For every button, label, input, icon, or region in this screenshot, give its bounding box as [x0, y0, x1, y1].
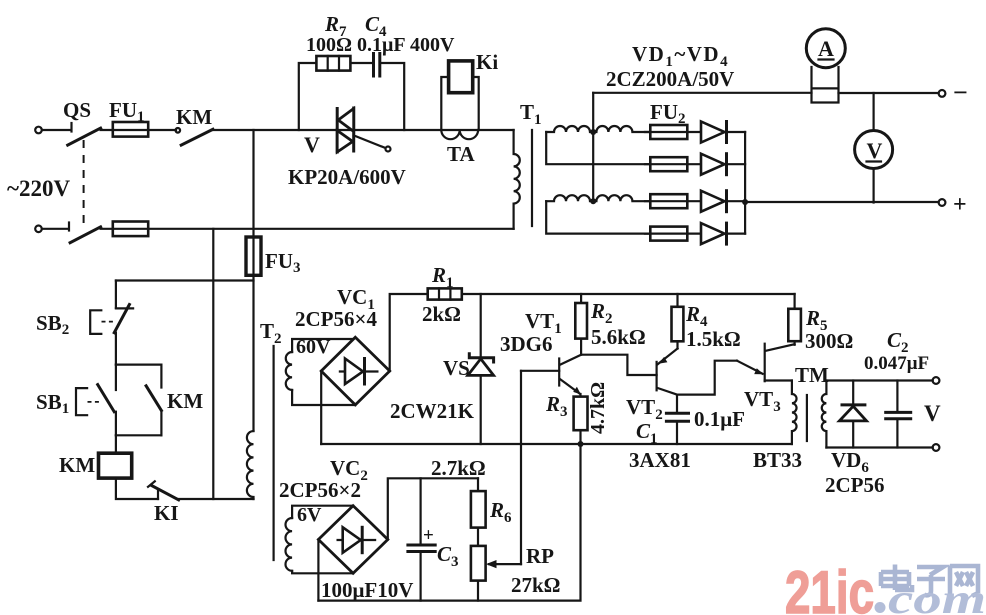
voltmeter V: [872, 93, 874, 203]
svg-text:+: +: [423, 525, 434, 546]
svg-text:100Ω: 100Ω: [306, 34, 352, 56]
transformer T1 core: [531, 130, 533, 226]
svg-text:2CP56×2: 2CP56×2: [279, 478, 361, 502]
wire VT2 collector to VT3 emitter: [677, 361, 737, 395]
svg-text:V: V: [304, 132, 320, 157]
resistor R2: [580, 294, 582, 355]
svg-text:3DG6: 3DG6: [500, 332, 553, 356]
svg-text:TA: TA: [447, 142, 475, 166]
wire: [42, 228, 68, 230]
svg-text:2kΩ: 2kΩ: [422, 302, 461, 326]
diode VD3: [701, 191, 725, 212]
wire center tap: [592, 93, 594, 201]
svg-text:3AX81: 3AX81: [629, 448, 691, 472]
pushbutton SB2: [115, 281, 117, 309]
diode VD4: [701, 223, 725, 244]
pulse transformer TM primary: [792, 381, 797, 445]
wire positive output line: [745, 201, 939, 203]
node plus junction: [742, 199, 748, 205]
svg-text:+: +: [953, 192, 967, 218]
wire negative output line: [593, 92, 938, 94]
svg-text:0.1μF: 0.1μF: [694, 407, 745, 431]
svg-text:KI: KI: [154, 501, 179, 525]
svg-text:~220V: ~220V: [7, 176, 70, 201]
svg-text:2CW21K: 2CW21K: [390, 399, 475, 423]
svg-text:KM: KM: [59, 453, 95, 477]
wire snubber right: [380, 63, 404, 130]
svg-text:1.5kΩ: 1.5kΩ: [686, 327, 741, 351]
rectifier bridge VC1: [321, 337, 390, 405]
SECTION: trigger circuit: [295, 263, 941, 497]
transistor VT2: [655, 362, 657, 390]
wiper arrow RP: [489, 563, 521, 565]
wire bottom AC line: [101, 228, 514, 230]
SECTION: control circuit: [36, 130, 301, 525]
capacitor C1: [676, 395, 678, 411]
SECTION: thyristor: [288, 108, 406, 189]
node output terminal top: [933, 377, 940, 384]
TM core: [806, 395, 808, 441]
pushbutton SB1: [115, 365, 117, 390]
svg-text:QS: QS: [63, 98, 91, 122]
svg-text:RP: RP: [526, 544, 554, 568]
fuse FU2 row1: [650, 125, 687, 139]
contact KM auxiliary: [146, 386, 161, 411]
ammeter A: [806, 29, 845, 68]
transformer T2 primary: [247, 431, 254, 499]
wire bridge2 minus down: [317, 540, 319, 601]
capacitor C4: [374, 54, 380, 77]
svg-text:2.7kΩ: 2.7kΩ: [431, 456, 486, 480]
wire bridge minus down: [320, 371, 322, 444]
wire: [101, 129, 176, 131]
wire: [42, 129, 71, 131]
potentiometer RP: [471, 546, 486, 581]
svg-text:VD1~VD4: VD1~VD4: [632, 42, 729, 70]
svg-text:60V: 60V: [296, 336, 331, 358]
dashed link QS: [83, 140, 85, 226]
fuse FU3: [252, 130, 254, 431]
wire top AC line: [213, 129, 514, 131]
svg-text:KP20A/600V: KP20A/600V: [288, 165, 406, 189]
wire row1 to diode: [645, 131, 701, 133]
SECTION: low voltage supply: [279, 371, 581, 602]
svg-text:6V: 6V: [297, 504, 322, 526]
contactor coil KM: [99, 453, 132, 478]
contactor contact KM main: [176, 128, 181, 133]
svg-text:KM: KM: [167, 389, 203, 413]
wire output bottom: [826, 446, 932, 448]
T1 secondary winding A bottom lead: [546, 132, 650, 164]
resistor R7: [316, 56, 350, 71]
switch QS pole 2: [68, 223, 70, 231]
resistor R4: [676, 294, 678, 349]
svg-text:KM: KM: [176, 105, 212, 129]
gate wire: [354, 135, 386, 148]
wire rejoin: [116, 434, 161, 436]
capacitor C3 electrolytic: [420, 478, 422, 544]
node N input terminal: [35, 226, 42, 233]
svg-text:2CP56×4: 2CP56×4: [295, 307, 377, 331]
node output terminal bottom: [933, 444, 940, 451]
relay coil KI: [449, 61, 473, 93]
fuse FU2 row4: [650, 227, 687, 241]
wire bridge plus up to R1: [390, 294, 428, 371]
svg-text:TM: TM: [795, 363, 829, 387]
svg-text:300Ω: 300Ω: [805, 329, 853, 353]
wire wiper to VT1 base: [520, 371, 522, 564]
watermark dot: [875, 602, 886, 613]
diode VD2: [701, 154, 725, 175]
node R3 ground: [578, 441, 584, 447]
TM secondary: [822, 381, 827, 448]
T1 secondary winding B top half: [546, 195, 650, 201]
SECTION: watermark: [785, 559, 986, 615]
svg-text:0.1μF: 0.1μF: [357, 34, 406, 56]
wire VT3 base1: [765, 379, 792, 381]
diode VD6: [852, 381, 854, 405]
transformer T2 core: [273, 346, 275, 560]
svg-text:100μF10V: 100μF10V: [321, 578, 413, 602]
svg-text:A: A: [818, 36, 834, 61]
SECTION: T1 and rectifier: [514, 42, 749, 244]
SECTION: AC input: [7, 98, 514, 243]
capacitor C2: [896, 381, 898, 412]
SECTION: meters and output: [593, 29, 968, 218]
node L input terminal: [35, 127, 42, 134]
svg-text:2CP56: 2CP56: [825, 473, 885, 497]
resistor R5: [793, 294, 795, 345]
T1 secondary winding A top half: [546, 126, 650, 132]
wire coil bottom: [116, 478, 158, 499]
T2 secondary 6V: [286, 518, 293, 571]
T1 secondary winding B bottom lead: [546, 201, 650, 233]
fuse FU2 row2: [650, 157, 687, 171]
wire cathode bus: [744, 132, 746, 234]
wire top rail: [462, 293, 795, 295]
svg-text:Ki: Ki: [476, 50, 498, 74]
rectifier bridge VC2: [318, 506, 387, 574]
wire output top: [826, 379, 932, 381]
svg-text:400V: 400V: [410, 34, 455, 56]
SECTION: KI relay TA: [441, 50, 498, 166]
resistor R3: [579, 394, 581, 444]
node positive terminal: [939, 199, 946, 206]
zener VS: [480, 294, 482, 444]
SECTION: T2: [247, 319, 355, 573]
thyristor V KP20A/600V: [336, 109, 339, 153]
wire bottom rail: [321, 443, 792, 445]
transistor VT1: [558, 359, 560, 386]
transformer T1 primary: [514, 130, 520, 229]
wire bottom return: [318, 444, 580, 601]
contact KI: [157, 490, 159, 500]
wire bridge2 plus up and top wire: [388, 478, 478, 539]
node center tap B: [590, 198, 596, 204]
SECTION: snubber: [299, 12, 455, 130]
svg-text:2CZ200A/50V: 2CZ200A/50V: [606, 67, 734, 91]
watermark dianziwang 电子网 drawn: [881, 565, 978, 597]
svg-text:V: V: [924, 401, 941, 426]
svg-text:com: com: [888, 577, 986, 615]
diode VD1: [701, 122, 725, 143]
svg-text:5.6kΩ: 5.6kΩ: [591, 325, 646, 349]
fuse FU2 row3: [650, 194, 687, 208]
wire KI right lead: [473, 77, 479, 130]
resistor R1: [428, 288, 462, 299]
svg-text:−: −: [953, 78, 968, 107]
T2 secondary 60V: [286, 352, 292, 390]
svg-text:21ic: 21ic: [785, 559, 874, 615]
wire control top: [116, 279, 254, 281]
wire VT1 collector to VT2 base: [581, 355, 657, 375]
svg-text:27kΩ: 27kΩ: [511, 573, 561, 597]
svg-text:V: V: [867, 138, 883, 163]
transistor VT3: [764, 344, 766, 382]
fuse FU1 pole 2: [113, 222, 148, 237]
svg-text:0.047μF: 0.047μF: [864, 353, 929, 374]
node negative terminal: [939, 90, 946, 97]
node center tap A: [590, 129, 596, 135]
svg-text:BT33: BT33: [753, 448, 802, 472]
wire branch to KM contact: [116, 365, 161, 388]
fuse FU1: [113, 122, 148, 137]
svg-text:VS: VS: [443, 356, 470, 380]
wire snubber left: [299, 63, 373, 130]
wire neutral drop: [212, 229, 214, 499]
current transformer TA: [441, 130, 478, 139]
svg-text:4.7kΩ: 4.7kΩ: [587, 382, 609, 434]
wire KI left lead: [441, 77, 448, 130]
resistor R6: [477, 478, 479, 491]
switch QS pole 1: [70, 123, 72, 132]
